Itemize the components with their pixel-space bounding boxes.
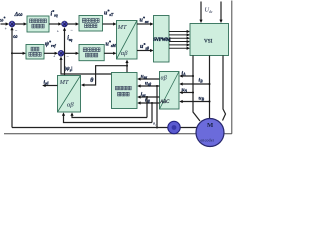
svg-text:Δω: Δω: [14, 12, 24, 18]
wire regulator to MT/ab with label u*_sM: [104, 52, 114, 54]
svg-text:u*sT: u*sT: [104, 8, 114, 17]
block MT to alpha-beta transform U1: [117, 21, 138, 60]
svg-text:ABC: ABC: [159, 100, 170, 105]
wire flux magnitude feedback into S3: [61, 59, 112, 74]
wire i_s-beta run to MT2 bottom: [64, 115, 153, 123]
junction dot flux generator branch: [11, 52, 13, 54]
wire omega_ref input: [1, 23, 7, 25]
svg-text:u*sα: u*sα: [140, 15, 150, 24]
svg-text:uB: uB: [199, 95, 205, 101]
svg-text:uA: uA: [182, 87, 188, 93]
wire omega feedback vertical: [11, 29, 13, 128]
svg-text:isd: isd: [44, 79, 49, 85]
block flux generator: [26, 45, 44, 60]
block VSI: [190, 24, 229, 56]
wire phase B from VSI to motor: [209, 56, 211, 120]
wire i_sq feedback into S2 from below: [64, 30, 66, 76]
wire current tap i_A: [181, 75, 193, 77]
wire branch v3 down to encoder line: [156, 85, 158, 87]
svg-text:MT: MT: [117, 24, 127, 31]
svg-text:iA: iA: [182, 70, 187, 76]
junction dot theta branch: [126, 65, 128, 67]
svg-text:−: −: [70, 28, 73, 33]
block alpha-beta to ABC transform U3: [159, 72, 179, 110]
svg-text:VSI: VSI: [204, 39, 213, 45]
wire theta branch to MT2: [83, 66, 127, 85]
svg-text:αβ: αβ: [67, 102, 74, 109]
wire phase C from VSI to motor: [223, 56, 226, 121]
wire i_s-alpha run to MT2 bottom: [72, 115, 147, 118]
svg-text:−: −: [15, 28, 18, 33]
svg-text:i*sq: i*sq: [51, 9, 58, 18]
svg-text:MT: MT: [59, 79, 69, 86]
svg-text:ω*: ω*: [0, 17, 5, 24]
svg-text:|ψs|: |ψs|: [65, 66, 73, 72]
svg-text:αβ: αβ: [121, 50, 128, 57]
wire bundle SVPWM to VSI (6 gate signals): [169, 32, 188, 49]
motor M: [196, 119, 224, 147]
svg-text:M: M: [207, 122, 214, 129]
svg-text:αβ: αβ: [161, 76, 167, 82]
block excitation current regulator: [79, 45, 104, 61]
svg-text:θ: θ: [90, 78, 94, 84]
summing junction S2: [62, 21, 68, 27]
svg-text:+: +: [57, 29, 60, 34]
summing junction S1: [9, 21, 15, 27]
svg-text:+: +: [5, 26, 8, 31]
wire U_dc arrows into VSI: [200, 2, 202, 21]
frame border right and bottom: [4, 1, 232, 134]
encoder PG: [168, 121, 180, 133]
svg-text:usα: usα: [141, 73, 148, 79]
svg-text:encoder: encoder: [201, 138, 215, 142]
svg-text:iB: iB: [199, 77, 204, 83]
wire S1 to speed regulator: [15, 23, 24, 25]
wire branch v2 i_s-beta down: [151, 102, 153, 104]
wire phase A from VSI to motor: [193, 56, 200, 122]
block torque current regulator: [79, 16, 103, 32]
wire i_sd output arrow from U2: [44, 85, 58, 87]
svg-text:isq: isq: [67, 36, 72, 43]
wire branch v1 i_s-alpha down: [146, 96, 148, 98]
svg-text:ψ*ref: ψ*ref: [45, 39, 56, 48]
wire U1 to SVPWM u*_s-alpha: [137, 23, 151, 25]
summing junction S3: [58, 50, 64, 56]
wire U1 to SVPWM u*_s-beta: [137, 50, 151, 52]
wire regulator to S2 with label i*_sq: [49, 23, 60, 25]
wire to flux generator: [12, 52, 24, 54]
block SVPWM: [153, 16, 171, 63]
svg-text:−: −: [66, 54, 69, 59]
wire voltage tap u_B: [181, 101, 210, 103]
wire theta into U1 bottom: [126, 62, 128, 73]
wire encoder speed feedback line: [12, 127, 198, 129]
wire i_s-beta to observer: [139, 102, 160, 104]
svg-text:usβ: usβ: [145, 80, 151, 86]
wire flux generator to S3 with label psi*_ref: [44, 52, 56, 54]
svg-text:SVPWM: SVPWM: [154, 38, 172, 43]
svg-text:u*sM: u*sM: [106, 39, 117, 48]
wire voltage tap u_A: [181, 92, 193, 94]
block speed PI regulator: [27, 16, 49, 32]
svg-text:Udc: Udc: [205, 7, 213, 15]
block alpha-beta to MT transform U2: [58, 76, 81, 113]
wire u_s-beta to observer: [139, 85, 160, 87]
svg-text:ω: ω: [13, 34, 18, 40]
wire u_s-alpha to observer: [139, 78, 160, 80]
wire S3 to flux current regulator: [64, 52, 77, 54]
svg-text:u*sβ: u*sβ: [140, 42, 150, 51]
wire S2 to torque current regulator: [68, 23, 77, 25]
wire i_s-alpha to observer: [139, 96, 160, 98]
wire regulator to MT/ab transform with label u*_sT: [103, 23, 115, 25]
wire current tap i_B: [181, 83, 210, 85]
block flux observer U4: [112, 73, 138, 109]
